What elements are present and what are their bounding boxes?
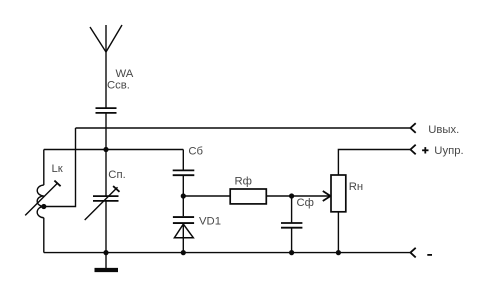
node B junction Сб VD1 Rф xyxy=(181,193,186,198)
svg-text:Uвых.: Uвых. xyxy=(428,124,459,136)
wire Uвых. output line xyxy=(76,127,411,129)
svg-text:Сб: Сб xyxy=(188,146,203,158)
wire node C to Сф xyxy=(291,196,293,223)
svg-text:VD1: VD1 xyxy=(199,215,221,227)
wire Rф to node C xyxy=(266,195,291,197)
terminal minus chevron xyxy=(410,248,415,258)
label minus xyxy=(427,254,432,256)
wire node B to VD1 xyxy=(182,196,184,216)
wire top bus to coil Lк xyxy=(43,150,45,186)
svg-text:Rн: Rн xyxy=(349,181,363,193)
adjustment arrow of Сп. xyxy=(85,186,120,220)
wire node A to Сп. xyxy=(105,150,107,197)
wire Сп. to ground bus xyxy=(105,201,107,253)
wire Сф to ground bus xyxy=(291,228,293,253)
wire bottom bus xyxy=(44,252,411,254)
capacitor Ссв. xyxy=(96,108,117,113)
ground xyxy=(95,253,119,270)
node C junction Rф Сф xyxy=(289,193,294,198)
adjustment arrow of Lк xyxy=(25,181,60,216)
terminal Uвых. chevron xyxy=(410,123,415,133)
wire node C to Rн arrow xyxy=(292,195,331,197)
node junction antenna top bus xyxy=(103,147,108,152)
wire top bus to Сб xyxy=(182,150,184,171)
varicap VD1 xyxy=(173,217,194,253)
node coil tap junction xyxy=(41,204,46,209)
svg-text:Rф: Rф xyxy=(235,176,252,188)
svg-text:Lк: Lк xyxy=(52,163,63,175)
svg-text:WA: WA xyxy=(116,68,134,80)
wire tap riser from coil to Uвых. xyxy=(44,128,76,207)
resistor Rн xyxy=(331,175,346,212)
svg-text:Сф: Сф xyxy=(297,197,314,209)
arrow into Rн xyxy=(323,191,331,201)
wire top node bus xyxy=(44,149,184,151)
svg-text:Сп.: Сп. xyxy=(108,169,125,181)
wire coil Lк to ground bus xyxy=(43,218,45,253)
terminal Uупр. chevron xyxy=(410,145,415,155)
node bus Сп. junction xyxy=(103,250,108,255)
capacitor Сп. plates xyxy=(93,196,119,201)
wire Rн top to Uупр. xyxy=(338,150,410,176)
svg-text:Uупр.: Uупр. xyxy=(434,145,463,157)
node bus Rн junction xyxy=(336,250,341,255)
capacitor Сф xyxy=(281,223,302,228)
capacitor Сб xyxy=(173,170,195,175)
node bus VD1 junction xyxy=(181,250,186,255)
wire node B to Rф xyxy=(183,195,230,197)
resistor Rф xyxy=(230,189,266,204)
node bus Сф junction xyxy=(289,250,294,255)
wire Rн bottom to ground bus xyxy=(337,212,339,253)
svg-text:Ссв.: Ссв. xyxy=(107,80,130,92)
wire antenna to node A xyxy=(105,113,107,150)
inductor Lк xyxy=(37,185,44,218)
label plus sign xyxy=(422,147,428,153)
antenna WA xyxy=(90,25,122,108)
wire Сб to node B xyxy=(182,175,184,196)
